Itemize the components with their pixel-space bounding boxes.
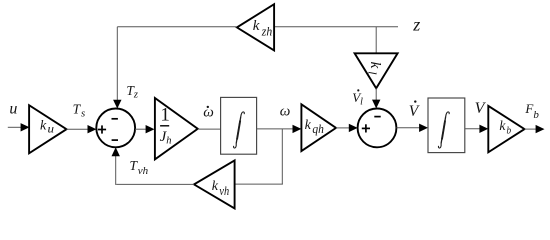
wire integrator2 to kb xyxy=(465,125,489,133)
svg-text:u: u xyxy=(48,122,55,136)
summing junction S1 xyxy=(96,109,135,148)
wire Ts: ku to sum1 xyxy=(67,125,97,133)
svg-text:k: k xyxy=(499,118,506,133)
gain kb triangle xyxy=(488,106,524,152)
wire kqh to sum2 xyxy=(336,124,358,132)
svg-text:qh: qh xyxy=(312,121,324,136)
gain kqh triangle xyxy=(301,104,336,151)
wire sum1 to 1/Jh xyxy=(135,125,154,133)
wire kl tip to sum2 top xyxy=(372,88,380,108)
svg-text:k: k xyxy=(40,119,47,134)
gain kzh triangle (left pointing) xyxy=(237,4,274,50)
gain ku triangle xyxy=(29,105,66,153)
integrator block 2 xyxy=(428,98,465,153)
node omega-dot label xyxy=(203,104,214,120)
svg-text:ω: ω xyxy=(280,103,291,119)
svg-text:k: k xyxy=(305,118,312,133)
svg-text:vh: vh xyxy=(219,184,229,198)
svg-text:zh: zh xyxy=(261,24,272,38)
wire sum2 to integrator2 xyxy=(396,124,428,132)
svg-text:vh: vh xyxy=(138,165,149,177)
wire Tvh: kvh tip left and up into sum1 bottom xyxy=(112,147,195,185)
gain kl triangle (down pointing) xyxy=(355,53,398,88)
svg-text:u: u xyxy=(9,100,17,117)
svg-text:1: 1 xyxy=(160,105,170,126)
wire kzh tip to top-left corner xyxy=(117,26,237,28)
wire Tz: from top line corner down into sum1 top xyxy=(113,27,121,109)
integrator block 1 xyxy=(221,97,257,154)
svg-text:s: s xyxy=(81,108,85,119)
wire input u arrow xyxy=(8,123,30,131)
svg-text:b: b xyxy=(507,125,512,136)
wire omega: integrator1 to kqh xyxy=(257,125,302,133)
node V-dot label xyxy=(409,100,420,119)
wire 1/Jh to integrator1 xyxy=(198,128,221,130)
wire z junction down to kl xyxy=(375,27,377,54)
summing junction S2 xyxy=(358,109,397,148)
gain kvh triangle (left pointing) xyxy=(194,160,235,208)
wire z top line xyxy=(274,26,398,28)
svg-text:k: k xyxy=(253,18,260,34)
node Vl-dot label xyxy=(352,89,363,107)
svg-text:V: V xyxy=(409,103,420,120)
gain 1/Jh triangle xyxy=(155,98,198,159)
svg-text:z: z xyxy=(412,15,420,35)
svg-text:k: k xyxy=(212,179,219,194)
wire omega tap down to kvh xyxy=(235,129,283,184)
wire output Fb arrow xyxy=(525,125,545,133)
